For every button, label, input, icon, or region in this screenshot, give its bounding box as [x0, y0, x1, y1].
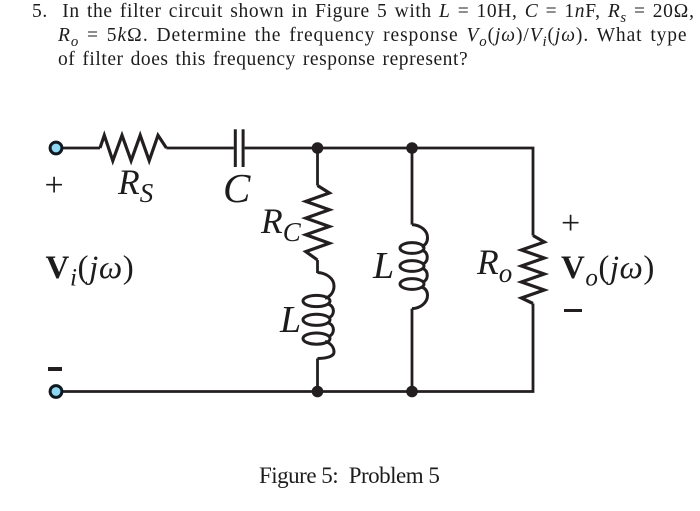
- label RS: [118, 161, 153, 203]
- node B junction dot (top): [406, 142, 418, 154]
- figure caption: [259, 463, 439, 489]
- label RO: [477, 241, 512, 283]
- wire from RC to inductor L1: [316, 260, 319, 273]
- label - (input polarity bottom): [48, 367, 62, 370]
- wire from node A to node B: [318, 147, 413, 150]
- label RC: [261, 200, 301, 242]
- inductor L2 (middle branch): [400, 225, 428, 309]
- node A junction dot (top): [312, 142, 324, 154]
- label Vi(jw): [46, 250, 135, 287]
- label Vo(jw): [561, 250, 655, 287]
- resistor RO: [521, 236, 544, 304]
- label - (output polarity): [564, 309, 582, 313]
- wire from Rs to capacitor C: [166, 147, 233, 150]
- resistor RC: [306, 186, 330, 261]
- label + (output polarity): [561, 205, 580, 243]
- node B junction dot (bottom): [406, 386, 418, 398]
- node A junction dot (bottom): [312, 386, 324, 398]
- resistor RS: [100, 135, 166, 160]
- problem text line 1: [32, 1, 695, 23]
- wire node A down to resistor RC: [316, 148, 319, 186]
- problem text line 2: [58, 25, 688, 47]
- label C: [223, 164, 250, 212]
- input terminal top (+): [50, 142, 62, 154]
- wire top rail from + terminal to resistor Rs: [62, 147, 100, 150]
- label L1: [280, 298, 301, 342]
- capacitor C plate 2: [242, 129, 245, 167]
- label + (input polarity top): [45, 167, 64, 205]
- input terminal bottom (-): [50, 386, 62, 398]
- inductor L1 (left branch): [303, 273, 334, 359]
- wire from node B to top-right corner: [412, 148, 533, 236]
- bottom rail wire from node B to node A: [318, 390, 413, 393]
- wire from L2 to bottom node B: [411, 309, 414, 392]
- bottom rail wire from node A to - terminal: [62, 390, 318, 393]
- wire from capacitor to node A: [245, 147, 318, 150]
- wire node B down to inductor L2: [411, 148, 414, 225]
- label L2: [373, 244, 394, 288]
- wire from RO to bottom-right corner and along bottom to node B: [412, 304, 533, 392]
- capacitor C plate 1: [234, 129, 237, 167]
- problem text line 3: [58, 49, 468, 71]
- wire from L1 to bottom node A: [316, 359, 319, 392]
